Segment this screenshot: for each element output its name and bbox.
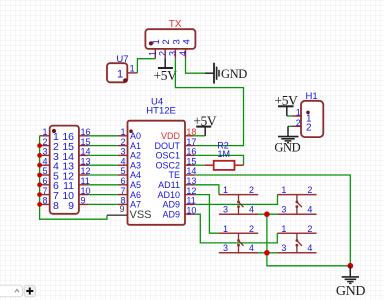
svg-text:3: 3 (168, 51, 178, 56)
svg-text:6: 6 (120, 176, 125, 186)
svg-text:H1: H1 (306, 91, 318, 102)
svg-text:2: 2 (42, 137, 47, 147)
DIP16 left pin numbers 1-8 (42, 127, 47, 206)
H1 pin 1 (287, 108, 301, 118)
svg-text:AD11: AD11 (158, 180, 180, 190)
svg-text:DOUT: DOUT (155, 141, 181, 151)
wire AD10 to SW3 pin1 (195, 195, 219, 234)
svg-text:AD10: AD10 (157, 190, 180, 200)
svg-text:4: 4 (307, 204, 312, 214)
svg-text:+5V: +5V (193, 114, 217, 129)
junction switch column bottom (264, 250, 270, 256)
svg-text:4: 4 (249, 204, 254, 214)
svg-text:3: 3 (281, 204, 286, 214)
junction dots on left bus (37, 143, 42, 207)
switch SW4 (277, 233, 316, 253)
power +5V at H1 pin1 (275, 93, 299, 116)
svg-text:3: 3 (223, 204, 228, 214)
svg-text:4: 4 (249, 243, 254, 253)
SW4 pin numbers (281, 224, 312, 253)
svg-text:17: 17 (186, 137, 196, 147)
svg-text:1: 1 (281, 224, 286, 234)
UI zoom toolbar bottom left (0, 285, 23, 297)
svg-text:A4: A4 (130, 170, 141, 180)
svg-text:GND: GND (274, 141, 300, 155)
SW3 pin numbers (223, 224, 254, 253)
svg-text:A6: A6 (130, 190, 141, 200)
label R2 (217, 140, 229, 150)
RF module TX (145, 29, 195, 49)
resistor R2 (205, 161, 244, 170)
wire bus DIP16 left common (40, 136, 107, 219)
wire SW1 pin4 to SW2 pin3 (258, 213, 277, 215)
DIP16 right pin numbers 16-9 (81, 127, 91, 206)
wire OSC2 to R2 left (195, 164, 205, 166)
svg-text:9: 9 (119, 204, 124, 214)
DIP16 pin names right 16-9 (62, 131, 74, 212)
svg-text:2: 2 (306, 123, 312, 134)
U4 pin names left A0-A7 VSS (130, 131, 152, 221)
svg-text:TE: TE (168, 170, 180, 180)
U4 pin names right VDD DOUT OSC1 OSC2 TE AD11 AD10 AD9 AD9 (155, 131, 181, 219)
TX pin 3 (168, 39, 183, 59)
svg-text:GND: GND (336, 284, 365, 299)
svg-text:A0: A0 (130, 131, 141, 141)
switch SW2 (277, 195, 316, 215)
wire OSC1 to R2 right (195, 155, 244, 165)
label TX (169, 19, 182, 30)
svg-text:1: 1 (42, 127, 47, 137)
svg-text:4: 4 (307, 243, 312, 253)
svg-text:1: 1 (296, 108, 301, 118)
svg-text:1: 1 (120, 127, 125, 137)
wire SW3 pin4 to SW4 pin3 (258, 252, 277, 254)
svg-text:7: 7 (120, 186, 125, 196)
wire TX pin4 to GND (186, 59, 205, 73)
wire switch common to GND rail (267, 214, 350, 266)
junction switch column top (264, 211, 270, 217)
U4 left pin stubs 1-8 (118, 136, 128, 205)
wires DIP16 right pins to U4 A0-A7 (89, 136, 118, 205)
svg-text:3: 3 (42, 147, 47, 157)
svg-text:5: 5 (120, 166, 125, 176)
svg-text:A5: A5 (130, 180, 141, 190)
svg-text:1: 1 (223, 185, 228, 195)
DIP16 right pin stubs 16-9 (79, 136, 89, 205)
svg-text:7: 7 (42, 186, 47, 196)
UI zoom-in button (24, 285, 35, 297)
svg-text:2: 2 (249, 185, 254, 195)
svg-text:4: 4 (120, 156, 125, 166)
svg-text:9: 9 (68, 200, 74, 212)
DIP16 pin names left 1-8 (53, 131, 59, 212)
TX pin 4 (178, 39, 193, 59)
svg-text:4: 4 (181, 39, 192, 44)
svg-text:1M: 1M (218, 149, 231, 159)
svg-text:2: 2 (249, 224, 254, 234)
svg-text:VSS: VSS (130, 209, 152, 221)
svg-text:1: 1 (223, 224, 228, 234)
TX pin 1 (148, 39, 163, 59)
svg-text:6: 6 (42, 176, 47, 186)
svg-text:4: 4 (42, 156, 47, 166)
label U4 (151, 96, 163, 107)
svg-text:+5V: +5V (154, 68, 178, 83)
ground GND at H1 pin2 (274, 126, 300, 154)
svg-text:3: 3 (120, 147, 125, 157)
resistor network DIP16 (50, 126, 79, 214)
svg-text:2: 2 (158, 51, 168, 56)
power +5V at VDD (193, 114, 217, 136)
SW1 pin numbers (223, 185, 254, 214)
svg-text:11: 11 (186, 196, 195, 206)
svg-text:9: 9 (81, 196, 86, 206)
U4 right pin numbers 18-10 (186, 127, 196, 215)
svg-text:3: 3 (281, 243, 286, 253)
wire VDD to +5V (193, 135, 205, 137)
U7 pin 1 (127, 64, 137, 74)
svg-text:AD9: AD9 (162, 209, 180, 219)
svg-text:A2: A2 (130, 151, 141, 161)
svg-text:A3: A3 (130, 160, 141, 170)
svg-text:1: 1 (117, 69, 123, 81)
svg-text:+5V: +5V (275, 93, 299, 108)
label H1 (306, 91, 318, 102)
H1 pin 2 (288, 118, 301, 128)
svg-text:A1: A1 (130, 141, 141, 151)
svg-text:8: 8 (53, 200, 59, 212)
power +5V at TX pin2 (154, 58, 178, 83)
svg-text:OSC2: OSC2 (155, 160, 180, 170)
svg-text:1: 1 (148, 51, 158, 56)
label U7 (116, 54, 128, 65)
antenna U7 (107, 63, 127, 82)
value 1M (218, 149, 231, 159)
svg-text:TX: TX (169, 19, 182, 30)
DIP16 left pin stubs 1-8 (40, 136, 50, 205)
SW2 pin numbers (281, 185, 312, 214)
svg-text:VDD: VDD (161, 131, 181, 141)
label HT12E (146, 106, 176, 117)
ground GND at TX pin4 (205, 63, 248, 84)
U4 left pin numbers 1-9 (119, 127, 125, 214)
svg-text:8: 8 (42, 196, 47, 206)
ground GND bottom right (336, 266, 365, 299)
wire AD9 pin10 to SW4 pin1 (195, 214, 277, 243)
svg-text:GND: GND (221, 67, 247, 81)
wire TX pin3 to DOUT (175, 59, 243, 146)
svg-text:1: 1 (281, 185, 286, 195)
U4 right pin stubs 18-10 (185, 136, 195, 214)
wire U7 to TX pin1 (137, 59, 155, 73)
svg-text:4: 4 (178, 51, 188, 56)
svg-text:5: 5 (42, 166, 47, 176)
svg-text:HT12E: HT12E (146, 106, 176, 117)
wire AD9 pin11 to SW2 pin1 (195, 195, 278, 205)
svg-text:2: 2 (307, 224, 312, 234)
switch SW1 (219, 195, 258, 215)
U4 pin 9 VSS stub (107, 214, 128, 216)
switch SW3 (219, 233, 258, 253)
svg-text:3: 3 (223, 243, 228, 253)
svg-text:11: 11 (81, 176, 90, 186)
svg-text:AD9: AD9 (162, 200, 180, 210)
wire AD11 to SW1 pin1 (195, 185, 219, 195)
svg-text:OSC1: OSC1 (155, 151, 180, 161)
svg-text:U7: U7 (116, 54, 128, 65)
wire TE to GND rail (195, 175, 350, 266)
header H1 (301, 101, 323, 137)
svg-text:2: 2 (296, 118, 301, 128)
junction GND rail (347, 263, 353, 269)
svg-text:2: 2 (307, 185, 312, 195)
svg-text:1: 1 (130, 64, 135, 74)
encoder U4 HT12E (128, 121, 186, 225)
svg-text:2: 2 (120, 137, 125, 147)
TX pin 2 (158, 39, 173, 59)
